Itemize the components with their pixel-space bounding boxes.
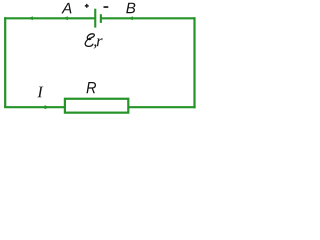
wire: bottom-left segment from corner to resistor R bbox=[4, 106, 65, 108]
resistor R box bbox=[65, 99, 128, 113]
current arrow on top wire right segment at x=130 (pointing left) bbox=[128, 16, 132, 20]
battery plus sign bbox=[85, 4, 89, 8]
current arrow on top wire left segment at x=30 (pointing left) bbox=[28, 16, 32, 20]
node label B bbox=[126, 3, 135, 13]
wire: bottom-right segment from resistor R to bottom-right corner bbox=[128, 106, 196, 108]
EMF label: internal resistance r bbox=[97, 38, 103, 46]
battery cell: negative short plate bbox=[100, 14, 102, 23]
battery cell: positive long plate bbox=[94, 9, 96, 28]
current arrow on top wire left segment at x=65 (pointing left) bbox=[63, 16, 67, 20]
node label A bbox=[61, 3, 71, 13]
current label I bbox=[37, 87, 43, 98]
EMF label: comma bbox=[94, 44, 97, 48]
wire: left vertical side bbox=[4, 17, 6, 107]
wire: top-left segment from battery + plate to top-left corner bbox=[4, 17, 95, 19]
battery minus sign bbox=[104, 6, 109, 8]
current arrow I on bottom wire (pointing right) bbox=[45, 105, 50, 109]
EMF label: script E bbox=[85, 34, 94, 47]
wire: right vertical side bbox=[193, 17, 195, 108]
resistor label R bbox=[87, 82, 97, 93]
wire: top-right segment from top-right corner to battery - plate bbox=[101, 17, 196, 19]
